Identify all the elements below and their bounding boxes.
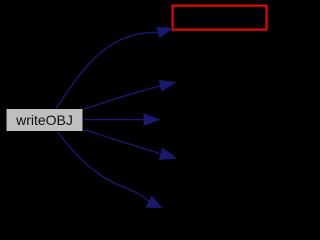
edge writeOBJ -> node 4: [84, 130, 162, 155]
arrowhead edge 3: [144, 114, 160, 125]
edge writeOBJ -> node 5: [58, 132, 150, 202]
svg-text:writeOBJ: writeOBJ: [15, 112, 73, 128]
edge writeOBJ -> red node: [56, 32, 158, 108]
node writeOBJ: [6, 109, 83, 132]
arrowhead edge 1: [157, 28, 173, 38]
arrowhead edge 2: [159, 81, 175, 91]
edge writeOBJ -> node 2: [84, 86, 161, 110]
edge writeOBJ -> node 3: [84, 119, 145, 121]
node (red, truncated callee): [173, 6, 267, 30]
arrowhead edge 4: [160, 149, 176, 160]
arrowhead edge 5: [147, 196, 162, 207]
